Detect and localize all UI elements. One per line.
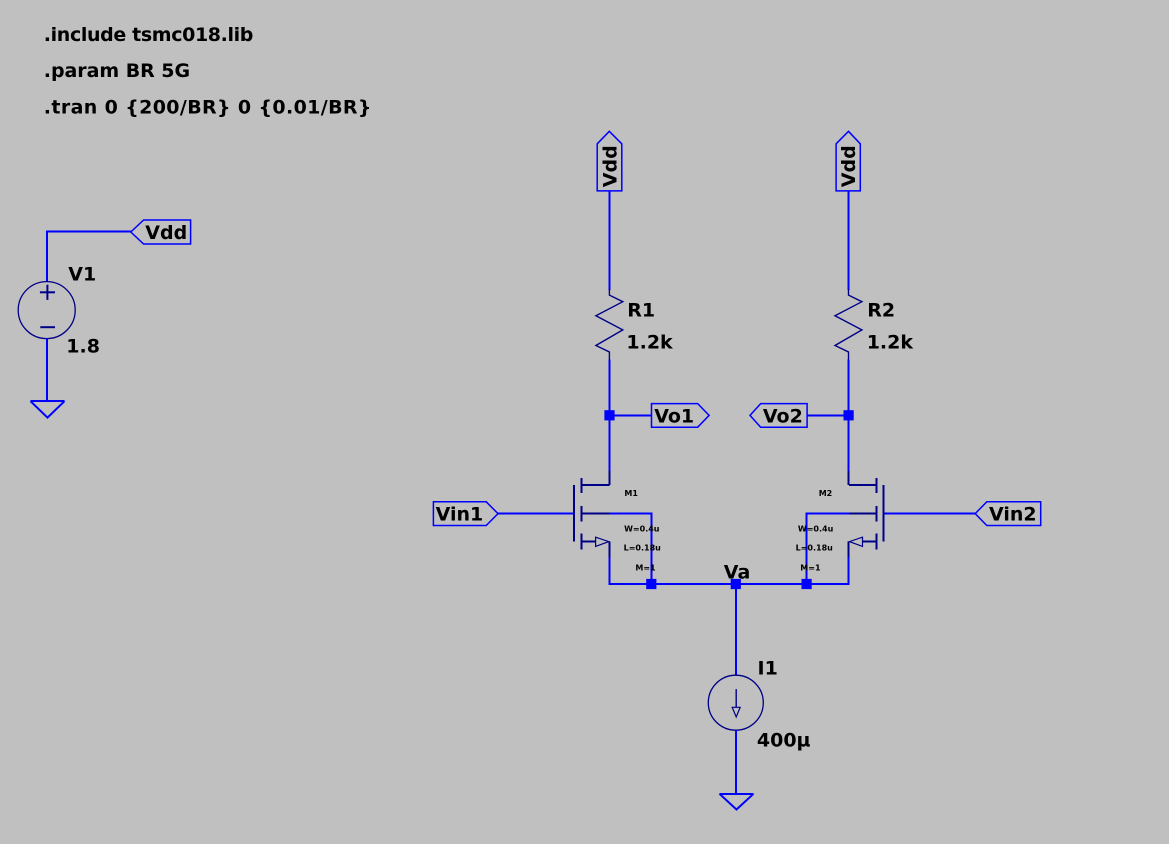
net flag Vdd above R1 (597, 131, 622, 191)
ground below I1 (720, 794, 754, 810)
junction Vo2 node (844, 410, 854, 420)
wire V1 top to Vdd flag (47, 231, 131, 283)
resistor R1 (596, 289, 623, 360)
wire Va to I1 (735, 584, 737, 675)
svg-text:M=1: M=1 (800, 564, 821, 573)
voltage source V1 (18, 282, 75, 339)
svg-text:M=1: M=1 (635, 564, 656, 573)
wire M2 bulk (807, 512, 850, 584)
net flag Vin2 (975, 502, 1040, 526)
wire Vin1 to M1 gate (498, 512, 574, 514)
wire R1 to Vo1 node (608, 360, 610, 416)
net flag Vo2 (750, 404, 807, 428)
wire Vo2 node to M2 drain (848, 415, 850, 485)
wire M2 source down (848, 557, 850, 585)
svg-text:M1: M1 (624, 489, 638, 498)
ground below V1 (31, 401, 65, 417)
svg-text:I1: I1 (758, 658, 778, 680)
junction Vo1 node (604, 410, 614, 420)
svg-text:.tran 0 {200/BR} 0 {0.01/BR}: .tran 0 {200/BR} 0 {0.01/BR} (44, 97, 372, 119)
current source I1 (708, 675, 763, 730)
wire Vo2 node to flag (807, 414, 848, 416)
svg-text:.param BR 5G: .param BR 5G (44, 60, 190, 82)
net flag Vo1 (652, 404, 710, 428)
resistor R2 (835, 289, 862, 360)
wire Vo1 node to flag (609, 414, 651, 416)
svg-text:Vin1: Vin1 (436, 504, 484, 526)
transistor M2 (849, 471, 884, 557)
svg-text:400µ: 400µ (757, 730, 811, 752)
wire M1 source down (608, 557, 610, 585)
svg-text:Vo1: Vo1 (654, 405, 694, 427)
wire V1 bottom to ground (46, 339, 48, 402)
svg-text:R1: R1 (627, 299, 655, 321)
net flag Vdd above R2 (836, 131, 860, 191)
M1 source arrow (596, 537, 609, 546)
junction Va node (731, 579, 741, 589)
svg-text:W=0.4u: W=0.4u (624, 525, 660, 534)
wire R2 to Vo2 node (848, 360, 850, 416)
svg-text:W=0.4u: W=0.4u (798, 525, 834, 534)
svg-text:.include tsmc018.lib: .include tsmc018.lib (44, 24, 253, 46)
wire Vdd flag to R2 (848, 191, 850, 290)
net flag Vin1 (433, 502, 498, 526)
svg-text:Vin2: Vin2 (989, 504, 1037, 526)
wire M1 bulk (610, 512, 652, 584)
svg-text:Vdd: Vdd (838, 145, 860, 187)
svg-text:Vo2: Vo2 (763, 405, 803, 427)
svg-text:L=0.18u: L=0.18u (796, 544, 834, 553)
svg-text:Vdd: Vdd (599, 145, 621, 187)
svg-text:1.2k: 1.2k (626, 331, 673, 353)
M2 source arrow (849, 537, 862, 546)
svg-text:1.8: 1.8 (66, 336, 100, 358)
wire I1 to ground (735, 730, 737, 794)
svg-text:L=0.18u: L=0.18u (624, 544, 662, 553)
wire Vdd flag to R1 (608, 191, 610, 290)
svg-text:Vdd: Vdd (145, 222, 187, 244)
net flag Vdd left (131, 220, 191, 244)
svg-text:V1: V1 (68, 264, 96, 286)
wire Vin2 to M2 gate (883, 512, 975, 514)
wire bottom rail (609, 583, 848, 585)
transistor M1 (574, 471, 609, 557)
wire Vo1 node to M1 drain (608, 415, 610, 485)
junction M1 source node (646, 579, 656, 589)
svg-text:R2: R2 (867, 299, 895, 321)
junction M2 bulk node (802, 579, 812, 589)
svg-text:M2: M2 (819, 489, 833, 498)
svg-text:1.2k: 1.2k (867, 331, 914, 353)
svg-text:Va: Va (724, 562, 751, 584)
